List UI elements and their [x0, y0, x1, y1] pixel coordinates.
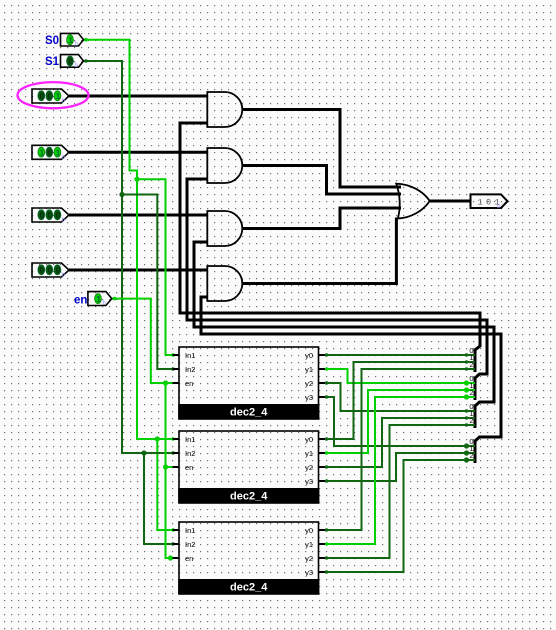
decoder U8 pin labels — [185, 526, 313, 577]
svg-text:y0: y0 — [305, 435, 313, 444]
svg-text:In2: In2 — [185, 540, 195, 549]
svg-text:y1: y1 — [305, 449, 313, 458]
svg-text:y2: y2 — [305, 554, 313, 563]
wire net S1 branch to dec3 In2 — [144, 453, 173, 544]
svg-text:0: 0 — [48, 91, 53, 101]
decoder U7 pin labels — [185, 435, 313, 486]
node en junction dec1 — [163, 380, 168, 385]
node concat3 input0 dot — [465, 409, 468, 412]
svg-text:1: 1 — [96, 294, 101, 304]
switch en pin — [88, 292, 112, 306]
svg-text:S0: S0 — [45, 35, 59, 47]
svg-text:In2: In2 — [185, 365, 195, 374]
output pin result LED — [471, 194, 508, 208]
node dec3 In2 pin dot — [171, 542, 174, 545]
node dec1 y1 pin dot — [325, 367, 328, 370]
svg-text:1: 1 — [40, 147, 45, 157]
and-gate G2 — [207, 148, 242, 183]
svg-text:dec2_4: dec2_4 — [230, 491, 268, 503]
wire input3 bus to AND G3 — [69, 214, 207, 217]
wire dec1 y1 to concat2 input0 — [325, 369, 475, 383]
node concat1 input2 dot — [465, 367, 468, 370]
decoder U8 dec2_4 body — [179, 522, 319, 594]
node dec1 y3 pin dot — [325, 395, 328, 398]
node concat2 input0 dot — [464, 380, 469, 385]
node dec2 In2 pin dot — [171, 451, 174, 454]
svg-text:0: 0 — [56, 210, 61, 220]
and-gate G3 — [207, 211, 242, 246]
node dec1 In1 pin dot — [171, 353, 174, 356]
svg-text:0: 0 — [68, 56, 73, 66]
node en pin tip dot — [113, 297, 117, 301]
switch S0 pin — [61, 33, 84, 46]
switch S1 pin — [61, 55, 84, 68]
wire net S1 branch to dec1 In2 — [122, 195, 173, 370]
node concat2 input1 dot — [464, 387, 469, 392]
svg-text:2: 2 — [469, 360, 473, 369]
wire net en branch down to dec3 en — [166, 467, 173, 558]
wire dec2 y0 to concat1 input1 — [325, 362, 475, 439]
svg-text:y1: y1 — [305, 540, 313, 549]
highlight ellipse around input1 — [18, 82, 89, 108]
switch input1 3-bit pin — [32, 89, 69, 103]
node concat4 input1 dot — [464, 450, 469, 455]
node S1 pin tip dot — [84, 59, 88, 63]
node S1 junction dec2 In2 — [141, 450, 146, 455]
svg-text:2: 2 — [469, 416, 473, 425]
switch input2 3-bit pin — [32, 145, 69, 159]
wire dec3 y1 to concat2 input2 — [325, 397, 475, 544]
node en junction dec2 — [163, 464, 168, 469]
wire net en from pin to dec1 en — [112, 299, 173, 383]
decoder U6 dec2_4 body — [179, 347, 319, 419]
decoder U6 pin labels — [185, 351, 313, 402]
node S0 junction A — [134, 177, 139, 182]
wire net S1 from pin to junction B — [84, 61, 123, 195]
svg-text:1: 1 — [56, 91, 61, 101]
wire input4 bus to AND G4 — [69, 269, 207, 272]
node dec2 In1 pin dot — [171, 437, 174, 440]
wire OR output to result pin — [430, 200, 471, 203]
svg-text:y3: y3 — [305, 477, 313, 486]
svg-text:y0: y0 — [305, 526, 313, 535]
wire dec1 y3 to concat4 input0 — [325, 397, 475, 446]
svg-text:y2: y2 — [305, 463, 313, 472]
svg-text:In1: In1 — [185, 435, 195, 444]
svg-text:0: 0 — [40, 265, 45, 275]
svg-text:0: 0 — [48, 265, 53, 275]
wire input1 bus to AND G1 — [69, 95, 207, 98]
node dec1 In2 pin dot — [171, 367, 174, 370]
svg-text:dec2_4: dec2_4 — [230, 407, 268, 419]
node dec2 y2 pin dot — [325, 465, 328, 468]
node dec2 y1 pin dot — [325, 451, 328, 454]
svg-text:2: 2 — [469, 451, 473, 460]
wire G3 output to OR input 3 — [242, 208, 401, 229]
wire dec3 y0 to concat1 input2 — [325, 369, 475, 530]
wire dec3 y3 to concat4 input2 — [325, 460, 475, 572]
wire G4 output to OR bottom input — [242, 218, 397, 284]
node concat4 input0 dot — [464, 443, 469, 448]
decoder U7 dec2_4 body — [179, 431, 319, 503]
node S0 pin tip dot — [84, 38, 88, 42]
wire dec2 y3 to concat4 input1 — [325, 453, 475, 481]
wire G1 output to OR input 1 — [242, 110, 401, 188]
node dec3 y1 pin dot — [325, 542, 328, 545]
node dec3 y3 pin dot — [325, 570, 328, 573]
svg-text:0: 0 — [48, 210, 53, 220]
switch input4 3-bit pin — [32, 263, 69, 277]
wire input2 bus to AND G2 — [69, 151, 207, 154]
svg-text:y0: y0 — [305, 351, 313, 360]
node concat2 input2 dot — [464, 394, 469, 399]
wire G2 output to OR input 2 — [242, 166, 401, 195]
node S1 junction B — [119, 192, 124, 197]
svg-text:0: 0 — [56, 265, 61, 275]
node concat3 input1 dot — [465, 416, 468, 419]
wire net S0 branch to dec1 In1 — [137, 179, 173, 355]
wire net S0 from pin to junction A — [84, 40, 138, 180]
wire net en branch down to dec2 en — [166, 383, 173, 467]
svg-text:en: en — [185, 463, 193, 472]
wire net S1 main down to dec2 In2 — [122, 195, 173, 454]
wire select-mask bus to G2 lower input — [187, 179, 487, 400]
and-gate G1 — [207, 92, 242, 127]
wire dec1 y0 to concat1 input0 — [325, 354, 475, 356]
wire dec2 y1 to concat2 input1 — [325, 390, 475, 453]
wire net S0 branch to dec3 In1 — [157, 439, 172, 530]
wire net S0 main down to dec2 In1 — [137, 179, 173, 439]
svg-text:1: 1 — [68, 35, 73, 45]
wire dec3 y2 to concat3 input2 — [325, 425, 475, 558]
node dec1 y2 pin dot — [325, 381, 328, 384]
wire dec2 y2 to concat3 input1 — [325, 418, 475, 467]
node en dec3 pin dot — [168, 555, 173, 560]
svg-text:In1: In1 — [185, 526, 195, 535]
or-gate U5 — [396, 184, 430, 219]
svg-text:0: 0 — [40, 210, 45, 220]
wire select-mask bus to G4 lower input — [201, 297, 501, 463]
svg-text:en: en — [185, 554, 193, 563]
wire dec1 y2 to concat3 input0 — [325, 383, 475, 411]
wire select-mask bus to G1 lower input — [180, 123, 480, 372]
node S0 junction dec2 In1 — [155, 436, 160, 441]
node dec3 y0 pin dot — [325, 528, 328, 531]
node concat4 input2 dot — [464, 457, 469, 462]
node dec2 y0 pin dot — [325, 437, 328, 440]
decoder U8 pin stubs — [173, 530, 326, 572]
node dec2 y3 pin dot — [325, 479, 328, 482]
svg-text:2: 2 — [469, 388, 473, 397]
svg-text:dec2_4: dec2_4 — [230, 582, 268, 594]
node dec1 y0 pin dot — [325, 353, 328, 356]
svg-text:en: en — [74, 295, 87, 307]
decoder U7 pin stubs — [173, 439, 326, 481]
node concat1 input1 dot — [465, 360, 468, 363]
svg-text:S1: S1 — [45, 56, 60, 68]
svg-text:y3: y3 — [305, 568, 313, 577]
svg-text:1: 1 — [56, 147, 61, 157]
svg-text:In2: In2 — [185, 449, 195, 458]
svg-text:In1: In1 — [185, 351, 195, 360]
decoder U6 pin stubs — [173, 355, 326, 397]
node dec3 y2 pin dot — [325, 556, 328, 559]
svg-text:0: 0 — [40, 91, 45, 101]
and-gate G4 — [207, 266, 242, 301]
svg-text:y3: y3 — [305, 393, 313, 402]
svg-text:y1: y1 — [305, 365, 313, 374]
node concat1 input0 dot — [465, 353, 468, 356]
svg-text:y2: y2 — [305, 379, 313, 388]
switch input3 3-bit pin — [32, 208, 69, 222]
svg-text:0: 0 — [48, 147, 53, 157]
node concat3 input2 dot — [465, 423, 468, 426]
svg-text:en: en — [185, 379, 193, 388]
wire select-mask bus to G3 lower input — [194, 242, 494, 428]
node dec3 In1 pin dot — [171, 528, 174, 531]
